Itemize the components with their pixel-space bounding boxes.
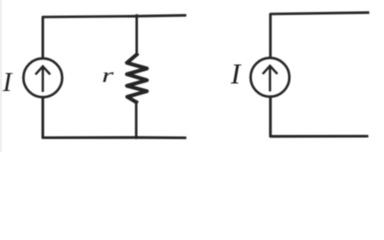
current source I2 arrow: [263, 66, 276, 91]
wire: resistor top lead: [135, 16, 138, 55]
resistor r zigzag: [127, 55, 147, 103]
wire: left vertical bottom + bottom wire left circuit: [43, 97, 185, 138]
current source I2 circle: [251, 58, 290, 97]
wire: left vertical top + top wire left circuit: [43, 15, 185, 57]
current source I1 arrow: [36, 66, 49, 91]
wire: resistor bottom lead: [135, 102, 138, 138]
current source I1 circle: [23, 58, 62, 97]
svg-text:I: I: [2, 67, 14, 97]
svg-text:r: r: [102, 64, 115, 87]
scan edge artifact: [0, 0, 2, 152]
wire: right vertical bottom + bottom wire right circuit: [270, 97, 367, 137]
wire: right vertical top + top wire right circuit: [270, 13, 368, 57]
svg-text:I: I: [230, 58, 242, 90]
